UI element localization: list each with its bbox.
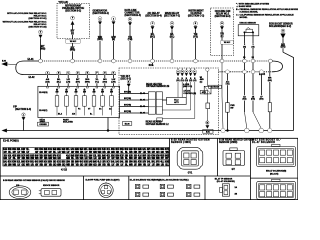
junction dot 227 [226,129,228,131]
svg-text:SW: SW [75,92,78,94]
wire PCM pin to tag [41,118,43,123]
PCM top pin marks [47,86,49,88]
svg-text:B/Y(YB): B/Y(YB) [124,111,131,113]
solenoid pin pairs [136,184,140,188]
svg-text:(BR): (BR) [281,47,286,49]
svg-text:E1-02: E1-02 [29,77,36,79]
inline connector ring 247 [245,128,249,132]
svg-text:(WG): (WG) [85,82,90,84]
bottom band dividers [83,176,85,200]
wire 4WD column lower [206,109,208,122]
pin A main relay [170,22,174,26]
svg-text:4J0: 4J0 [72,113,75,116]
wire 4WD column mid [206,94,208,103]
svg-text:e: e [194,71,195,73]
svg-text:E1-02(C): E1-02(C) [39,110,47,112]
wire knock sensor - to bus [252,32,254,59]
connector TP sensor [222,184,229,196]
connector E-26 [230,148,237,151]
wire cooling-fan relay to bus E1-01 [40,38,42,59]
svg-text:E1-06: E1-06 [125,124,130,126]
svg-text:B/Y(YB): B/Y(YB) [124,105,131,107]
svg-text:(C): (C) [200,81,203,83]
wire stub into PCM pin 6 [96,83,98,86]
bus wire L3 dashed [219,71,272,73]
svg-text:E1-01 PCM(A): E1-01 PCM(A) [3,140,19,143]
wire A/C column to dot [226,112,228,130]
svg-text:W/ A/C: W/ A/C [70,40,77,43]
small box above label [157,118,163,121]
divider band right cells [169,138,171,176]
svg-text:E-01: E-01 [2,61,6,63]
joint pins row in dashed box [177,68,179,70]
svg-text:▲ BASE WIRE: ▲ BASE WIRE [236,5,252,8]
svg-text:(SECTION B-1): (SECTION B-1) [93,13,110,15]
wire egr solenoid elbow to right riser [283,52,294,130]
svg-text:SW: SW [230,107,233,109]
connector pin G on bus L2 [103,71,106,74]
svg-text:(DL-47 SOLENOID): (DL-47 SOLENOID) [217,180,235,183]
pin D cooling-fan relay [39,30,43,34]
wires joint pins down [177,82,179,98]
svg-text:(SECTION F-2): (SECTION F-2) [164,15,180,17]
svg-text:(BL): (BL) [57,82,61,84]
svg-text:(YL): (YL) [95,82,99,84]
pin 1 generator [98,17,102,21]
svg-text:E1-05: E1-05 [140,113,145,115]
svg-text:CONTROL(B): CONTROL(B) [183,93,196,95]
wire PCM ground pin to bottom line [107,118,109,131]
svg-text:/CANADA MODEL: /CANADA MODEL [240,11,259,14]
connector lower 10pin [272,179,280,181]
svg-text:* : WITH IMMOBILIZER SYSTEM: * : WITH IMMOBILIZER SYSTEM [236,3,269,5]
bus wire L2 solid [24,74,116,76]
svg-text:(SECTION B-2): (SECTION B-2) [65,10,81,12]
svg-text:4J 1B: 4J 1B [61,169,67,172]
arrow generator wire 1 [98,22,101,25]
knock sensor shielded wire 2 [252,73,254,95]
svg-text:(BL): (BL) [170,36,175,38]
svg-text:(F): (F) [71,33,74,35]
pin G cooling fan relay no.2 [220,22,224,26]
relay ladder box column 2 [156,92,162,114]
wire a/c rly to row1 [128,87,130,94]
arrow a/c relay wire [151,26,154,29]
connector pin E on bus L2 [86,71,89,74]
small box 4WD lower [206,103,210,109]
svg-text:(SECTION B-4): (SECTION B-4) [145,15,162,18]
svg-text:E1-02(G): E1-02(G) [39,92,48,94]
bus wire L1 solid segment [24,60,39,62]
svg-text:(SECTION B-3): (SECTION B-3) [15,109,31,111]
PCM box U1 [38,86,120,117]
svg-text:E50-47 SOLENOID(B): E50-47 SOLENOID(B) [266,170,287,173]
connector pin H on bus L2 [112,71,115,74]
svg-text:KOa: KOa [149,65,154,67]
connector pin B on bus L2 [57,71,60,74]
svg-text:(SECTION C-2): (SECTION C-2) [188,16,205,18]
svg-text:DL-45 SOLENOID VALVE(EGR)(B) D: DL-45 SOLENOID VALVE(EGR)(B) DL-46 SOLEN… [130,179,189,182]
tag W/ A/C on cooling fan no.2 wire [221,41,233,45]
svg-text:MODEL: MODEL [240,17,249,19]
svg-text:SW: SW [93,92,96,94]
svg-text:(GO): (GO) [103,82,108,84]
pin H egr boost solenoid [281,29,285,33]
EGR column wire down [269,63,271,77]
grid callout 4J 1B [64,166,66,168]
round connector F/P [99,183,113,197]
knock sensor piezo symbol [246,27,250,29]
svg-text:(WR): (WR) [97,39,102,41]
svg-text:SW: SW [110,92,113,94]
wire cooling fan no.2 to bus [221,30,223,60]
svg-text:(WB): (WB) [40,48,45,50]
arrow into node E1-01 branch [39,35,42,38]
svg-text:ISOLATED: ISOLATED [63,121,74,124]
connector pin A on bus L2 [46,71,49,74]
pin 2 generator [112,17,116,21]
svg-text:SENSOR (2WD): SENSOR (2WD) [219,142,238,144]
dashed box: cooling fan relay no.2 [211,8,234,56]
arrow instrument cluster wire [194,26,197,29]
wire stub into PCM pin 2 [58,83,60,86]
wire 4WD column upper [206,71,208,86]
inline connector ring 223 [221,129,225,133]
svg-text:(WB): (WB) [70,50,75,52]
wire EGR column to ring [269,112,271,129]
arrow fuel pump wire [22,117,25,120]
PCM connector pin grid [3,147,169,166]
svg-text:(LR): (LR) [66,82,70,84]
relay ladder box column 1 [148,92,155,114]
tag box E-01 4WD [203,129,213,133]
inline connector ring 261 [259,128,263,132]
svg-text:B/Y(YB): B/Y(YB) [124,98,131,100]
svg-text:7.5A: 7.5A [225,83,230,86]
svg-text:ACT/CCM: ACT/CCM [211,86,220,89]
A/TX control box [167,97,187,104]
wire cooling fan no.2 down to ring [221,63,223,96]
svg-text:G/O: G/O [80,163,84,166]
wire stub into PCM pin 8 [112,83,114,86]
wire data link to bus [129,26,131,60]
svg-text:E1-05: E1-05 [140,93,145,95]
tag box small right [200,90,207,94]
svg-text:(G): (G) [252,46,255,48]
knock sensor shielded wire 1 [244,73,246,95]
connector pin C on bus L2 [67,71,70,74]
section divider line [0,137,298,139]
bottom bus wire [7,130,294,132]
svg-text:G/O: G/O [93,163,97,166]
arrow 4WD [206,125,209,128]
svg-text:W/ A/C: W/ A/C [224,41,231,44]
svg-text:SW: SW [56,92,59,94]
dashed box: rear heated oxygen sensor control [119,68,219,135]
svg-text:KNOCK SENSOR: KNOCK SENSOR [43,185,60,187]
junction dot at 108 [107,129,109,131]
wire refrigerant switch to bus [72,25,74,60]
right loop bus L1 to bus L3 [272,61,283,72]
svg-text:J: J [23,114,24,116]
wire stub into PCM pin 4 [77,83,79,86]
svg-text:(YB): (YB) [193,36,198,38]
PCM internal driver stages [56,88,58,96]
pin F refrigerant pressure switch [71,16,75,20]
arrow generator wire 2 [112,22,115,25]
svg-text:E1-05: E1-05 [140,106,145,108]
connector pin D on bus L2 [76,71,79,74]
svg-text:(SECTION GY-02): (SECTION GY-02) [29,26,47,28]
svg-text:SW: SW [83,92,86,94]
wire a/c relay to bus [152,30,154,60]
svg-text:1: 1 [100,18,101,20]
svg-text:c: c [186,71,187,73]
svg-text:B/Y(YB): B/Y(YB) [124,92,131,94]
pin J fuel pump relay [22,113,25,116]
svg-text:E1-05: E1-05 [140,100,145,102]
connector pin F on bus L2 [95,71,98,74]
resistor box A/C column [226,103,230,113]
wire generator-1 to bus [99,25,101,60]
wire stub into PCM pin 7 [104,83,106,86]
svg-text:(LW): (LW) [111,82,116,84]
svg-text:OXYGEN SENSOR L2: OXYGEN SENSOR L2 [146,124,170,126]
wire egr solenoid [282,38,284,52]
shield drop wire [260,73,262,95]
svg-text:2: 2 [113,18,114,20]
arrow refrigerant switch [71,21,74,25]
arrow cooling fan no.2 wire [220,26,223,29]
svg-text:SW: SW [65,92,68,94]
wire main relay to bus [171,30,173,60]
svg-text:d: d [190,71,191,73]
svg-text:(F): (F) [221,36,224,38]
svg-text:E-40 F/P FUEL PUMP (SEC B-3)(G: E-40 F/P FUEL PUMP (SEC B-3)(GY) [86,179,120,182]
connector knock rect [41,189,61,197]
arrow data link wire [128,22,131,25]
svg-text:(SEC B-1): (SEC B-1) [121,78,132,80]
grid row separators [3,153,169,155]
svg-text:(BO): (BO) [150,36,155,38]
wire generator-2 to bus [113,25,115,60]
tag W/ A/C [66,39,80,43]
pin on dashed top for 4WD column [206,68,209,71]
svg-text:KNOCK SENSOR: KNOCK SENSOR [240,23,257,25]
svg-text:(BY): (BY) [76,82,80,84]
svg-text:(SECTION B-4): (SECTION B-4) [125,14,142,17]
resistor box 4WD [204,86,211,94]
pin B data link connector [128,18,132,22]
svg-text:(B): (B) [112,39,115,41]
svg-text:E-01: E-01 [206,131,210,133]
wire knock sensor + to bus [244,32,246,59]
svg-text:SW: SW [101,92,104,94]
wires PCM to ladder rows [120,93,149,95]
arrow a/c rly [127,84,130,87]
bus wire L1 dashed segment [42,60,272,62]
svg-text:A/TX: A/TX [174,101,179,104]
wire instrument cluster to bus [195,30,197,60]
svg-text:(SG): (SG) [259,99,263,101]
knock wire stubs L1 to L3 [244,63,246,71]
svg-text:(SECTION B-3): (SECTION B-3) [215,16,231,18]
svg-text:(BR): (BR) [268,80,272,82]
junction circles on bus L3 [226,70,230,74]
left loop connecting bus L1 to bus L2 [16,61,24,75]
svg-text:(SEC F-3): (SEC F-3) [183,86,192,88]
connector knock oval [9,186,31,199]
svg-text:E1-01: E1-01 [28,59,35,61]
dashed box: refrigerant pressure switch (ATX A/C) [57,4,90,39]
svg-text:SENSOR (4WD): SENSOR (4WD) [171,141,191,144]
tag box OX/SEN [38,122,49,126]
wire fuel pump relay down to bottom line [23,120,25,130]
pin E instrument cluster [194,22,198,26]
svg-text:(AB): (AB) [45,81,50,84]
svg-text:G/O: G/O [62,163,66,166]
svg-text:(KS): (KS) [243,99,247,101]
inline connector ring 270 [268,129,272,133]
svg-text:OX/SEN: OX/SEN [39,124,47,126]
svg-text:OXYGEN SENSOR 2B: OXYGEN SENSOR 2B [146,86,170,88]
svg-text:SOLENOID(SEC B-2): SOLENOID(SEC B-2) [269,26,291,28]
svg-text:E-28 REAR HEATED OXYGEN SENSOR: E-28 REAR HEATED OXYGEN SENSOR (CALIF) K… [3,179,65,182]
A/C 7.5A column wire [226,73,228,102]
pin C a/c relay [151,22,155,26]
svg-text:GY: GY [232,169,236,171]
svg-text:(G): (G) [243,46,246,48]
svg-text:(KS): (KS) [251,99,255,101]
harness continuation arrow left [2,129,7,133]
connector E-25 scalloped oval [177,148,203,170]
svg-text:DL-47 SOLENOID: DL-47 SOLENOID [252,141,275,144]
svg-text:B+: B+ [90,114,92,116]
small box EGR column [268,103,271,112]
wire stub into PCM pin 3 [67,83,69,86]
wire ladder to A/TX box [162,99,166,101]
pin M 4WD [206,121,209,124]
tag box E1-06 [122,122,131,126]
wire stub into PCM pin 1 [47,83,49,86]
wire stub KOa [152,63,154,66]
svg-text:GY1: GY1 [188,173,193,175]
svg-text:(BLACK): (BLACK) [270,173,279,176]
svg-text:G/O: G/O [21,163,25,166]
wire stub into PCM pin 5 [86,83,88,86]
arrow egr solenoid wire (bold) [281,34,286,39]
svg-text:*ATX A/C: *ATX A/C [59,1,69,4]
svg-text:(SECTION GY-01): (SECTION GY-01) [29,18,47,20]
svg-text:E1-A: E1-A [58,113,63,116]
tag box ACT/CCM [209,85,222,88]
connector E-27 upper 10pin [272,144,280,146]
arrow main relay wire [170,26,173,29]
svg-text:(YB): (YB) [128,39,133,41]
svg-text:G/O: G/O [53,163,57,166]
junction circles on bus L1 [39,59,43,63]
pin K a/c rly [127,80,130,83]
